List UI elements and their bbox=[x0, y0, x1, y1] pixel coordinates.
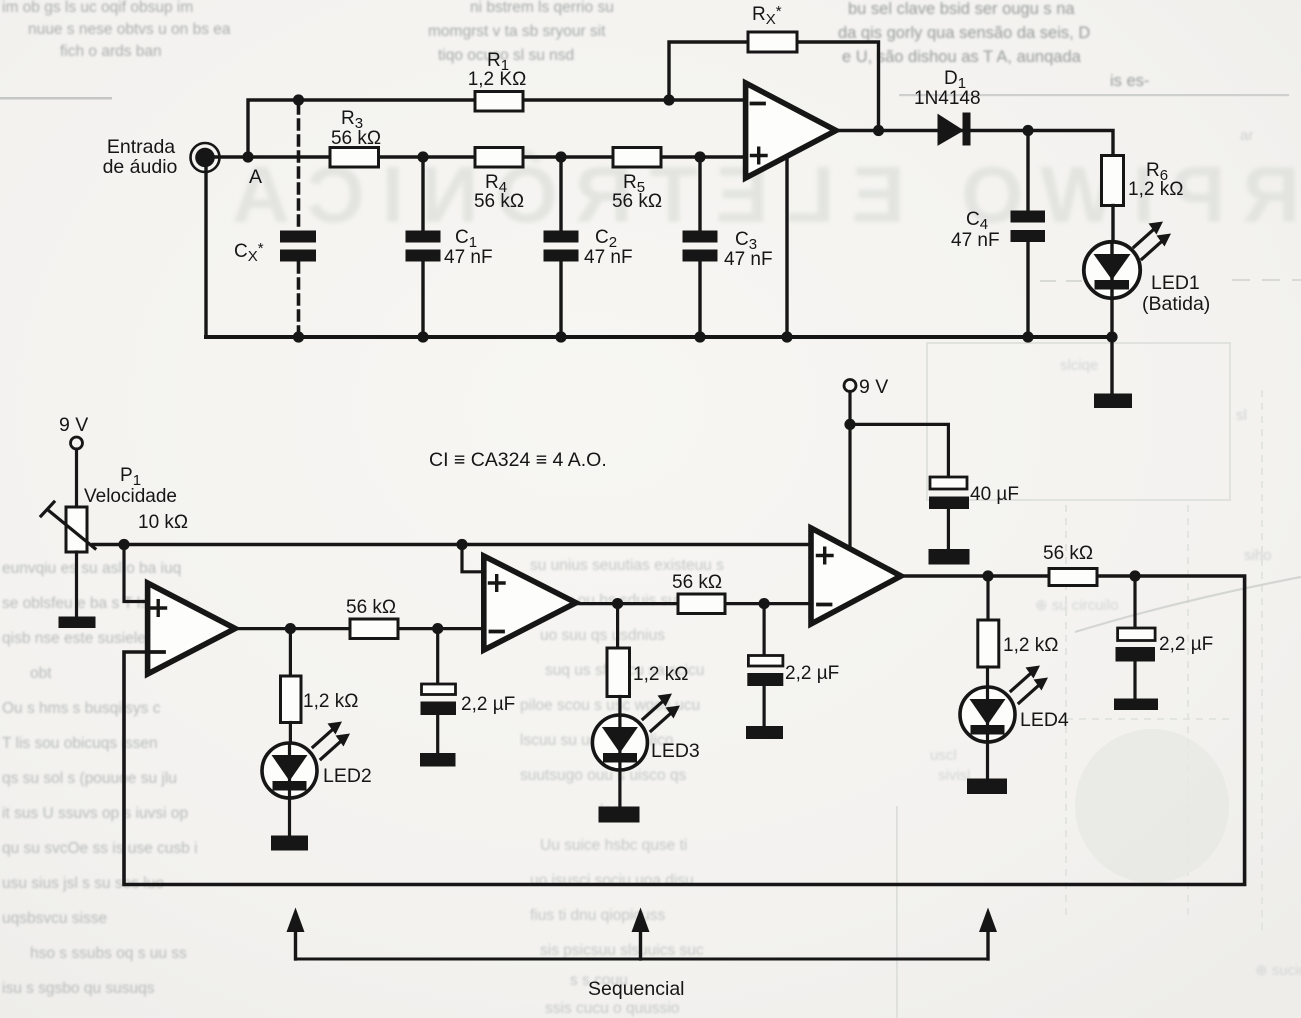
label CI = CA324 = 4 A.O. bbox=[429, 449, 607, 471]
svg-text:40 µF: 40 µF bbox=[970, 484, 1019, 505]
svg-text:10 kΩ: 10 kΩ bbox=[138, 512, 188, 533]
junction C4 top bbox=[1022, 125, 1033, 136]
LED2 bbox=[262, 743, 317, 836]
wire to LED2 bbox=[289, 723, 292, 745]
svg-text:LED3: LED3 bbox=[651, 740, 700, 762]
svg-text:47 nF: 47 nF bbox=[584, 247, 633, 268]
svg-text:momgrst v ta sb sryour sit: momgrst v ta sb sryour sit bbox=[428, 23, 606, 40]
junction C1 bottom bbox=[417, 331, 428, 342]
node CX top junction bbox=[293, 94, 304, 105]
svg-text:9 V: 9 V bbox=[59, 414, 88, 436]
resistor RX* bbox=[748, 3, 797, 52]
faint column separator bottom bbox=[896, 806, 898, 1018]
capacitor 2,2uF stage1 bbox=[421, 629, 516, 753]
svg-text:47 nF: 47 nF bbox=[951, 230, 1000, 251]
wire top rail bottom circuit y=544.5 bbox=[93, 543, 811, 546]
svg-text:Entrada: Entrada bbox=[107, 136, 175, 158]
svg-text:56 kΩ: 56 kΩ bbox=[612, 191, 662, 212]
svg-text:Sequencial: Sequencial bbox=[588, 978, 685, 1000]
resistor R1 bbox=[468, 50, 527, 111]
svg-text:ni bstrem ls qerrio su: ni bstrem ls qerrio su bbox=[470, 0, 614, 16]
junction C3 top bbox=[694, 151, 705, 162]
svg-text:56 kΩ: 56 kΩ bbox=[672, 572, 722, 593]
svg-text:LED2: LED2 bbox=[323, 765, 372, 787]
junction stage1 output bbox=[285, 623, 296, 634]
node A bbox=[242, 151, 262, 188]
svg-text:56 kΩ: 56 kΩ bbox=[331, 128, 381, 149]
wire U2b output bbox=[576, 602, 811, 605]
faint figure dashed verticals bbox=[1066, 390, 1262, 930]
svg-text:⊕ su circuilo: ⊕ su circuilo bbox=[1035, 597, 1118, 614]
svg-text:ssis cucu o quussio: ssis cucu o quussio bbox=[545, 1000, 679, 1017]
svg-text:2,2 µF: 2,2 µF bbox=[785, 663, 839, 684]
svg-text:isu s sgsbo qu susuqs: isu s sgsbo qu susuqs bbox=[2, 980, 155, 997]
svg-text:ar: ar bbox=[1240, 127, 1253, 144]
resistor R6 bbox=[1102, 156, 1184, 206]
capacitor CX* dashed leads bbox=[297, 104, 301, 335]
junction stage2 output bbox=[612, 598, 623, 609]
arrow sequencial 1 bbox=[287, 908, 305, 960]
junction LED1 rail bbox=[1106, 331, 1117, 342]
svg-text:LED4: LED4 bbox=[1020, 709, 1069, 731]
svg-text:im ob gs ls uc oqif obsup im: im ob gs ls uc oqif obsup im bbox=[2, 0, 193, 16]
junction C2 top bbox=[555, 151, 566, 162]
label LED2 bbox=[323, 765, 372, 787]
wire top row y=100 bbox=[248, 100, 745, 157]
wire RX feedback loop bbox=[669, 42, 879, 131]
junction stage3 output bbox=[982, 570, 993, 581]
faint figure right rect bbox=[927, 343, 1230, 500]
svg-text:uo suu qs usdnius: uo suu qs usdnius bbox=[540, 627, 665, 644]
wire stage2 to R 1.2k bbox=[616, 604, 619, 648]
wire to LED4 bbox=[986, 667, 989, 688]
svg-text:56 kΩ: 56 kΩ bbox=[1043, 543, 1093, 564]
ground LED4 bbox=[967, 779, 1007, 795]
svg-text:sis psicsuu slsuuics suc: sis psicsuu slsuuics suc bbox=[540, 942, 704, 959]
svg-text:2,2 µF: 2,2 µF bbox=[1159, 634, 1213, 655]
svg-text:56 kΩ: 56 kΩ bbox=[346, 597, 396, 618]
svg-text:da qis gorly qua sensão da se: da qis gorly qua sensão da seis, D bbox=[838, 24, 1090, 42]
LED2 light arrows bbox=[313, 722, 350, 760]
crease line bbox=[1075, 577, 1301, 632]
junction stage1 cap bbox=[432, 623, 443, 634]
svg-text:qs su sol s (pouuoe su jlu: qs su sol s (pouuoe su jlu bbox=[2, 770, 177, 787]
LED1 light arrows bbox=[1134, 222, 1171, 260]
ground cap stage2 bbox=[746, 726, 783, 739]
svg-text:1,2 kΩ: 1,2 kΩ bbox=[1003, 635, 1058, 656]
connector input jack bbox=[191, 143, 220, 172]
svg-text:qu su svcOe ss is use cusb: qu su svcOe ss is use cusb i bbox=[2, 840, 198, 857]
op-amp U1b bbox=[148, 583, 236, 674]
junction C4 bottom bbox=[1022, 331, 1033, 342]
junction C3 bottom bbox=[694, 331, 705, 342]
svg-text:suutsugo ouu s uisco qs: suutsugo ouu s uisco qs bbox=[520, 767, 687, 784]
svg-text:9 V: 9 V bbox=[859, 376, 888, 398]
wire U1b plus input bbox=[124, 545, 148, 602]
svg-text:is es-: is es- bbox=[1110, 72, 1149, 90]
label Sequencial bbox=[588, 978, 685, 1000]
junction 9V bbox=[844, 419, 855, 430]
faint right edge strip bbox=[1236, 127, 1272, 564]
junction C1 top bbox=[417, 151, 428, 162]
resistor 1,2k stage1 bbox=[281, 676, 359, 723]
bleed text top-right bbox=[838, 0, 1149, 90]
svg-text:⊕ suciq: ⊕ suciq bbox=[1255, 962, 1301, 979]
svg-text:(Batida): (Batida) bbox=[1142, 293, 1210, 315]
svg-text:bu sel clave bsid ser ougu s: bu sel clave bsid ser ougu s na bbox=[848, 0, 1075, 18]
junction CX bottom bbox=[293, 331, 304, 342]
junction C2 bottom bbox=[555, 331, 566, 342]
potentiometer P1 bbox=[41, 465, 188, 552]
bleed text left column bbox=[2, 560, 198, 997]
wire left down from connector bbox=[204, 160, 207, 337]
diode D1 bbox=[914, 68, 981, 146]
svg-text:1N4148: 1N4148 bbox=[914, 88, 981, 109]
faint rule top-right bbox=[899, 94, 1289, 96]
label Entrada de audio bbox=[103, 136, 178, 178]
svg-text:eunvqiu es su asl o ba iuq: eunvqiu es su asl o ba iuq bbox=[2, 560, 181, 577]
bleed headline watermark bbox=[232, 150, 1300, 239]
capacitor 2,2uF stage2 bbox=[747, 604, 839, 726]
LED3 light arrows bbox=[643, 694, 680, 732]
wire 9V to 40uF bbox=[850, 424, 948, 477]
svg-text:siho: siho bbox=[1244, 547, 1272, 564]
capacitor 2,2uF stage3 bbox=[1116, 576, 1214, 699]
op-amp U3b bbox=[811, 528, 901, 624]
svg-text:de áudio: de áudio bbox=[103, 156, 178, 178]
LED1 bbox=[1084, 242, 1140, 394]
wire U1b minus feedback loop bbox=[124, 576, 1245, 885]
svg-text:1,2 kΩ: 1,2 kΩ bbox=[633, 664, 688, 685]
svg-text:uqsbsvcu sisse: uqsbsvcu sisse bbox=[2, 910, 107, 927]
svg-text:56 kΩ: 56 kΩ bbox=[474, 191, 524, 212]
arrow sequencial 2 bbox=[632, 908, 650, 960]
capacitor C4 bbox=[951, 131, 1045, 338]
svg-text:Velocidade: Velocidade bbox=[84, 486, 177, 507]
junction rail U2b bbox=[456, 539, 467, 550]
supply 9V right bbox=[844, 376, 888, 424]
capacitor C1 bbox=[406, 157, 493, 337]
svg-text:2,2 µF: 2,2 µF bbox=[461, 694, 515, 715]
junction stage3 cap bbox=[1129, 570, 1140, 581]
LED4 light arrows bbox=[1011, 666, 1048, 704]
wire stage3 to R 1.2k bbox=[986, 576, 989, 620]
resistor 56k stage2 bbox=[672, 572, 725, 614]
label LED4 bbox=[1020, 709, 1069, 731]
ground cap stage3 bbox=[1114, 699, 1158, 711]
wire R6 to LED1 bbox=[1111, 206, 1114, 244]
svg-text:1,2 kΩ: 1,2 kΩ bbox=[1128, 179, 1183, 200]
wire to LED3 bbox=[618, 697, 621, 717]
svg-text:47 nF: 47 nF bbox=[444, 247, 493, 268]
junction RX tap bbox=[663, 94, 674, 105]
ground LED3 bbox=[599, 807, 640, 823]
label LED1 (Batida) bbox=[1142, 272, 1210, 315]
LED4 bbox=[960, 687, 1015, 779]
ground 40uF bbox=[929, 549, 970, 565]
junction feedback output bbox=[873, 125, 884, 136]
resistor 56k stage1 bbox=[346, 597, 398, 639]
capacitor CX* plates bbox=[280, 231, 316, 262]
resistor 1,2k stage3 bbox=[978, 620, 1059, 667]
svg-text:T lis sou obicuqs issen: T lis sou obicuqs issen bbox=[2, 735, 158, 752]
wire U1a output bbox=[836, 131, 1113, 156]
svg-text:CI ≡ CA324 ≡ 4 A.O.: CI ≡ CA324 ≡ 4 A.O. bbox=[429, 449, 607, 471]
junction rail U1b bbox=[118, 539, 129, 550]
junction stage2 cap bbox=[759, 598, 770, 609]
label LED3 bbox=[651, 740, 700, 762]
svg-text:sl: sl bbox=[1236, 407, 1247, 424]
svg-text:Uu suice hsbc quse ti: Uu suice hsbc quse ti bbox=[540, 837, 687, 854]
resistor R4 bbox=[474, 148, 524, 213]
ground LED2 bbox=[271, 836, 308, 851]
ground P1 bbox=[59, 617, 96, 629]
LED3 bbox=[592, 715, 647, 807]
svg-text:1,2 KΩ: 1,2 KΩ bbox=[468, 69, 527, 90]
svg-text:sivisl: sivisl bbox=[938, 767, 971, 784]
svg-text:47 nF: 47 nF bbox=[724, 249, 773, 270]
wire P1 to ground bbox=[75, 552, 78, 617]
svg-text:1,2 kΩ: 1,2 kΩ bbox=[303, 691, 358, 712]
capacitor 40uF bbox=[929, 477, 1019, 549]
resistor 1,2k stage2 bbox=[607, 648, 688, 697]
wire 9V power pin U3b bbox=[848, 424, 851, 547]
sequencial bracket line bbox=[296, 958, 989, 961]
supply 9V left bbox=[59, 414, 88, 507]
ground LED1 bbox=[1094, 394, 1132, 409]
label CX* bbox=[234, 240, 264, 265]
svg-text:slciqe: slciqe bbox=[1060, 357, 1098, 374]
svg-text:LED1: LED1 bbox=[1151, 272, 1200, 294]
wire U1a power pin to rail bbox=[785, 157, 788, 337]
op-amp U1a bbox=[746, 83, 836, 178]
wire U1b output bbox=[235, 627, 484, 630]
svg-text:hso s ssubs oq s uu ss: hso s ssubs oq s uu ss bbox=[30, 945, 187, 962]
svg-text:it sus U ssuvs op s iuvsi op: it sus U ssuvs op s iuvsi op bbox=[2, 805, 188, 822]
svg-text:nuue s nese obtvs u on bs ea: nuue s nese obtvs u on bs ea bbox=[28, 21, 231, 38]
faint figure circle bbox=[1075, 729, 1229, 883]
svg-text:A: A bbox=[249, 166, 262, 188]
faint rule top-left bbox=[0, 97, 112, 100]
faint dashed rule LED1 row bbox=[1040, 280, 1301, 281]
junction U1a power rail bbox=[781, 331, 792, 342]
bleed text mid column bbox=[520, 557, 724, 1017]
arrow sequencial 3 bbox=[979, 908, 997, 960]
svg-text:obt: obt bbox=[30, 665, 52, 682]
wire stage1 to R 1.2k bbox=[289, 629, 292, 676]
wire bottom rail top circuit y=337 bbox=[206, 335, 1113, 339]
resistor 56k stage3 bbox=[1043, 543, 1097, 586]
wire input row y=157 bbox=[205, 155, 745, 158]
bleed text top-middle bbox=[428, 0, 614, 64]
capacitor C3 bbox=[683, 157, 773, 337]
op-amp U2b bbox=[484, 556, 576, 650]
svg-text:fich o ards ban: fich o ards ban bbox=[60, 43, 162, 60]
svg-text:Ou s hms s busqilsys c: Ou s hms s busqilsys c bbox=[2, 700, 161, 717]
faint figure small labels right bbox=[930, 357, 1301, 979]
bleed text top-left bbox=[2, 0, 231, 60]
resistor R3 bbox=[330, 108, 381, 167]
resistor R5 bbox=[612, 148, 662, 213]
svg-text:uscl: uscl bbox=[930, 747, 957, 764]
svg-text:uo isusci sociu uoa disu: uo isusci sociu uoa disu bbox=[530, 872, 694, 889]
capacitor C2 bbox=[544, 157, 633, 337]
wire U2b plus input bbox=[462, 545, 484, 572]
ground cap stage1 bbox=[420, 753, 456, 767]
